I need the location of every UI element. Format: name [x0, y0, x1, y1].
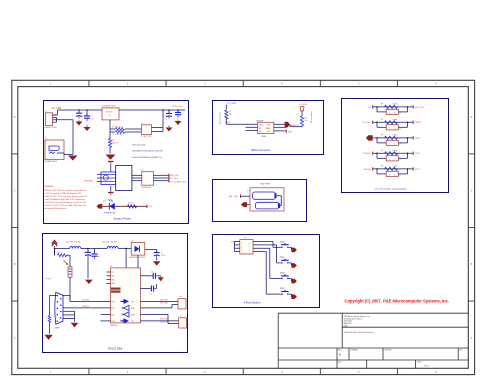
svg-text:U?: U?	[244, 238, 246, 240]
svg-text:BDM: BDM	[262, 136, 266, 138]
svg-text:J?: J?	[399, 144, 401, 146]
svg-text:Caution:: Caution:	[45, 185, 55, 188]
svg-text:PWR_VDD: PWR_VDD	[169, 175, 179, 177]
svg-text:-BUS_PORT_POD 0.4 have boards: -BUS_PORT_POD 0.4 have boards and 15o	[45, 196, 88, 198]
svg-text:10K 1%: 10K 1%	[112, 142, 119, 144]
svg-text:0 ohm: 0 ohm	[393, 119, 398, 121]
svg-text:RE_CON: RE_CON	[160, 303, 168, 305]
svg-text:Vout7=6IN 4R8950=49x5/NR 15o: Vout7=6IN 4R8950=49x5/NR 15o	[132, 156, 163, 159]
svg-text:R? 51K 1%: R? 51K 1%	[112, 127, 121, 129]
svg-text:R?: R?	[381, 166, 383, 168]
svg-text:4 4.7B But Resend Puedasen; an: 4 4.7B But Resend Puedasen; and the 3.3V	[45, 201, 87, 204]
svg-text:BLK/TXD: BLK/TXD	[160, 299, 168, 301]
svg-text:TGT_POWER_VDD: TGT_POWER_VDD	[169, 181, 187, 183]
svg-text:RED/RXD: RED/RXD	[160, 322, 169, 324]
svg-text:D?: D?	[104, 201, 106, 203]
svg-text:L?: L?	[45, 317, 47, 319]
svg-text:.1uF: .1uF	[97, 256, 100, 258]
svg-text:RXT0: RXT0	[415, 153, 420, 155]
svg-text:D?: D?	[131, 240, 133, 242]
svg-text:R?: R?	[381, 119, 383, 121]
svg-text:VOLTAGE REG: VOLTAGE REG	[102, 105, 116, 108]
svg-text:BATTERY: BATTERY	[261, 183, 271, 186]
svg-text:GND12: GND12	[415, 122, 421, 124]
svg-text:PTA?: PTA?	[280, 272, 285, 275]
svg-text:zero ohm header shorting ju: zero ohm header shorting jumper	[375, 187, 407, 190]
svg-text:BDM24F: BDM24F	[257, 120, 265, 122]
svg-text:HOSTTX: HOSTTX	[82, 306, 90, 308]
svg-text:BKGD: BKGD	[225, 122, 231, 124]
svg-text:Date: Date	[338, 361, 342, 364]
svg-text:P?: P?	[180, 316, 182, 318]
svg-text:PTA?: PTA?	[280, 240, 285, 243]
svg-text:C?: C?	[181, 114, 183, 116]
svg-text:POWER LED: POWER LED	[104, 212, 116, 214]
svg-text:U?: U?	[110, 266, 112, 268]
svg-text:RS232 DB9: RS232 DB9	[108, 346, 123, 350]
svg-text:PTA?: PTA?	[280, 256, 285, 259]
svg-text:BDM Connector: BDM Connector	[252, 148, 271, 152]
svg-text:10uCHIP CHOKE: 10uCHIP CHOKE	[66, 241, 82, 243]
svg-text:J?: J?	[399, 175, 401, 177]
svg-text:Sheet: Sheet	[417, 361, 422, 364]
svg-text:+5V_BDM: +5V_BDM	[226, 103, 236, 105]
svg-text:R? 470: R? 470	[128, 203, 134, 205]
svg-text:1: 1	[389, 174, 390, 176]
svg-text:1: 1	[389, 112, 390, 114]
svg-text:NC on product: NC on product	[310, 111, 313, 123]
svg-text:FCBM No.: FCBM No.	[351, 350, 359, 352]
svg-text:will panel 18o dinamics: will panel 18o dinamics	[45, 208, 67, 210]
svg-text:TXD0GG: TXD0GG	[363, 153, 371, 155]
svg-text:1 of 5: 1 of 5	[424, 365, 429, 367]
svg-text:RXD2: RXD2	[415, 138, 420, 140]
svg-text:0 ohm: 0 ohm	[393, 166, 398, 168]
svg-text:PC 817 OPTO: PC 817 OPTO	[141, 136, 153, 138]
svg-text:Rev: Rev	[460, 350, 463, 352]
svg-text:1.0uF: 1.0uF	[161, 255, 165, 257]
svg-text:DEMOQE Base Board Schematic: DEMOQE Base Board Schematic	[344, 331, 374, 334]
svg-text:R?: R?	[381, 135, 383, 137]
svg-text:-: -	[247, 208, 248, 212]
svg-text:J?: J?	[45, 138, 47, 140]
svg-text:TXD1GG: TXD1GG	[363, 169, 371, 171]
svg-text:J?: J?	[399, 113, 401, 115]
svg-text:R20=R667nm/Rn708=9x5 both Rh: R20=R667nm/Rn708=9x5 both Rh	[132, 150, 163, 153]
svg-text:R?: R?	[58, 252, 60, 254]
svg-text:R?: R?	[381, 150, 383, 152]
svg-text:if X0.12 insided 4.19E, the bo: if X0.12 insided 4.19E, the board K 5B,	[45, 192, 82, 195]
svg-text:BAT_VBB: BAT_VBB	[229, 195, 238, 198]
svg-text:SO 823-0LK: SO 823-0LK	[141, 187, 152, 189]
svg-text:=5.8/LV_PORT_POD to TBA_USB of: =5.8/LV_PORT_POD to TBA_USB offer 15o	[45, 204, 88, 207]
svg-text:PWR ENB: PWR ENB	[84, 180, 94, 182]
svg-text:OUT_VDD: OUT_VDD	[169, 178, 179, 180]
svg-text:POWER JACK: POWER JACK	[45, 160, 58, 163]
svg-text:B: B	[339, 352, 341, 356]
svg-text:BLK/TXD: BLK/TXD	[160, 319, 168, 321]
svg-text:R1IN: R1IN	[131, 308, 134, 310]
svg-text:Size: Size	[338, 350, 341, 352]
svg-text:R?: R?	[381, 104, 383, 106]
svg-text:USB-B CONN: USB-B CONN	[45, 127, 58, 129]
svg-text:T2IN: T2IN	[111, 321, 114, 323]
svg-text:10uCHIP CHOKE: 10uCHIP CHOKE	[102, 241, 118, 243]
svg-text:J?: J?	[399, 160, 401, 162]
svg-text:PTXD?: PTXD?	[46, 279, 52, 281]
svg-text:P?: P?	[180, 297, 182, 299]
svg-text:PTA0: PTA0	[231, 240, 236, 243]
svg-text:IN OUT: IN OUT	[106, 112, 112, 114]
svg-text:4 Push Button: 4 Push Button	[244, 301, 261, 305]
svg-text:C?: C?	[151, 271, 153, 273]
svg-text:C1+: C1+	[111, 272, 114, 274]
svg-text:J?: J?	[45, 111, 47, 113]
svg-text:R? 10K 1%: R? 10K 1%	[112, 134, 121, 136]
svg-text:PTA?: PTA?	[280, 287, 285, 290]
svg-text:1: 1	[389, 159, 390, 161]
svg-text:+5V_BDM: +5V_BDM	[299, 104, 308, 106]
svg-text:1: 1	[389, 128, 390, 130]
svg-text:U?: U?	[141, 170, 143, 172]
svg-text:1: 1	[389, 143, 390, 145]
svg-text:MAX202: MAX202	[111, 324, 118, 327]
svg-text:0 ohm: 0 ohm	[393, 150, 398, 152]
svg-text:TGT_VDD: TGT_VDD	[362, 122, 371, 124]
svg-text:+3.3V_SYS: +3.3V_SYS	[172, 106, 183, 108]
svg-text:-vdd 13o5=Base light) But 3.3V: -vdd 13o5=Base light) But 3.3V supplied …	[45, 198, 86, 201]
svg-text:LED=Gen LED: LED=Gen LED	[132, 144, 146, 146]
svg-text:MCU_VDD: MCU_VDD	[415, 107, 425, 109]
svg-text:U?: U?	[141, 123, 143, 125]
svg-text:J?: J?	[399, 129, 401, 131]
svg-text:C?: C?	[84, 253, 86, 255]
svg-text:Copyright (C) 2007, P&E Microc: Copyright (C) 2007, P&E Microcomputer Sy…	[345, 299, 450, 304]
svg-text:C?: C?	[150, 294, 152, 296]
svg-text:0 ohm: 0 ohm	[393, 135, 398, 137]
svg-text:R2IN: R2IN	[131, 314, 134, 316]
svg-text:T1IN: T1IN	[111, 301, 114, 303]
svg-text:GND: GND	[288, 132, 293, 134]
svg-text:RXT1: RXT1	[415, 169, 420, 171]
svg-text:RESET: RESET	[266, 128, 271, 130]
svg-text:DWG No.: DWG No.	[385, 350, 393, 352]
svg-text:HOSTRX: HOSTRX	[82, 300, 90, 302]
svg-text:When P.J&C 180 are insided, an: When P.J&C 180 are insided, and power se…	[45, 189, 87, 192]
svg-text:System Power: System Power	[114, 216, 131, 220]
svg-text:NC on product: NC on product	[219, 112, 222, 124]
svg-text:0 ohm: 0 ohm	[393, 104, 398, 106]
